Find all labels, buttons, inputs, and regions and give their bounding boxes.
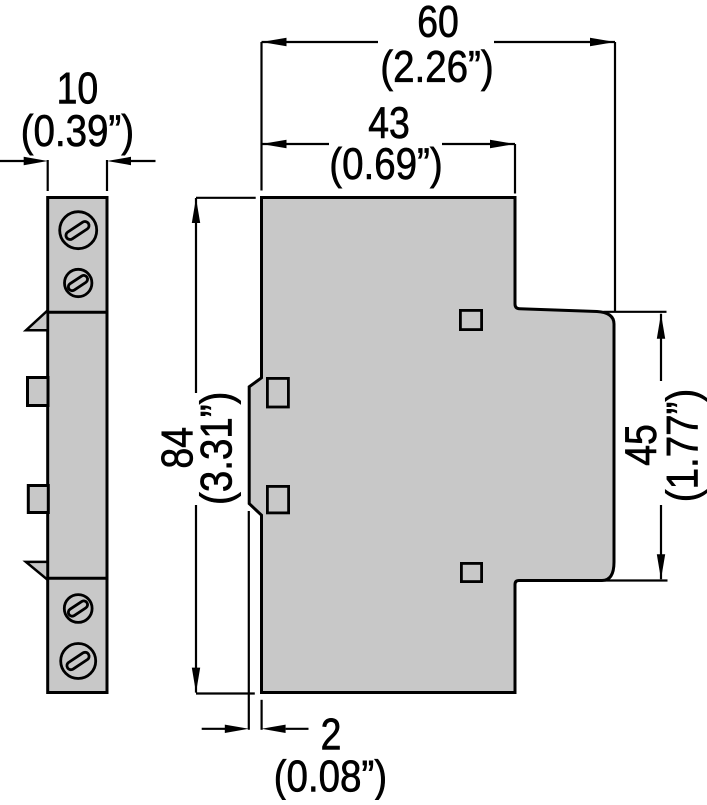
dim 84: label (3.31") <box>199 394 240 503</box>
screw 2 circle <box>65 269 92 296</box>
front view square hole middle bottom <box>461 563 481 581</box>
dim 2: right arrow <box>262 725 286 733</box>
dim 2: right tail <box>286 728 309 730</box>
side view column body <box>48 198 107 693</box>
dim 43: label 43 <box>369 107 408 139</box>
dim 84: line lower segment <box>195 505 197 693</box>
dim 10: left extension line <box>47 160 49 191</box>
dim 84: top extension line <box>196 197 256 199</box>
screw 1 circle <box>60 212 97 249</box>
dim 2: left extension line <box>248 511 250 730</box>
dim 2: label (0.08") <box>276 759 385 800</box>
dim 60: left arrow <box>262 38 287 46</box>
dim 84: bottom extension line <box>196 692 255 694</box>
side view upper tab <box>28 378 49 406</box>
screw 4 circle <box>61 644 96 679</box>
dim 84: top arrow <box>192 198 200 223</box>
dim 45: bottom arrow <box>657 554 665 579</box>
dim 2: left arrow <box>225 725 249 733</box>
dim 45: label (1.77") <box>665 391 706 500</box>
screw 2 slot <box>67 274 89 292</box>
dim 2: label 2 <box>322 718 339 749</box>
dim 10: label 10 <box>59 72 96 104</box>
front view square hole left top <box>267 378 288 407</box>
dim 43: right extension line <box>514 144 516 194</box>
screw 3 slot <box>67 599 89 617</box>
front view body outline <box>249 198 614 693</box>
dim 43: line left segment <box>262 143 330 145</box>
dim 45: label 45 <box>625 426 656 465</box>
dim 10: label (0.39") <box>23 114 132 155</box>
dim 10: right arrow <box>107 157 131 165</box>
dim 60: right extension line <box>614 42 616 311</box>
dim 60: label 60 <box>419 6 457 38</box>
dim 84: line upper segment <box>195 198 197 393</box>
dim 43: label (0.69") <box>332 147 441 188</box>
dim 10: left tail <box>0 160 24 162</box>
dim 45: top extension line <box>604 311 667 313</box>
dim 2: right extension line <box>261 700 263 730</box>
dim 10: right tail <box>131 160 156 162</box>
dim 43: left arrow <box>262 140 287 148</box>
side view lower triangle flag <box>26 562 48 580</box>
dim 43: right arrow <box>490 140 515 148</box>
dim 45: top arrow <box>657 314 665 339</box>
dim 2: left tail <box>202 728 225 730</box>
side view upper triangle flag <box>26 310 48 330</box>
dim 84: label 84 <box>161 428 193 467</box>
dim 60: line right segment <box>494 41 615 43</box>
dim 45: line upper segment <box>660 314 662 381</box>
dim 10: left arrow <box>24 157 48 165</box>
side view top separator <box>48 311 107 314</box>
side view lower tab <box>28 486 48 513</box>
side view bottom separator <box>48 577 107 580</box>
front view square hole left bottom <box>267 486 288 513</box>
dim 60: right arrow <box>590 38 615 46</box>
dim 10: right extension line <box>106 160 108 191</box>
screw 3 circle <box>64 595 92 623</box>
dim 60: label (2.26") <box>383 50 492 91</box>
dim 45: line lower segment <box>660 505 662 579</box>
dim 60: line left segment <box>262 41 379 43</box>
dim 84: bottom arrow <box>192 668 200 693</box>
front view square hole middle top <box>460 310 481 329</box>
screw 1 slot <box>64 220 90 241</box>
dim 43: line right segment <box>442 143 515 145</box>
screw 4 slot <box>65 651 90 671</box>
dim 60: left extension line <box>260 42 262 191</box>
dim 45: bottom extension line <box>605 579 668 581</box>
